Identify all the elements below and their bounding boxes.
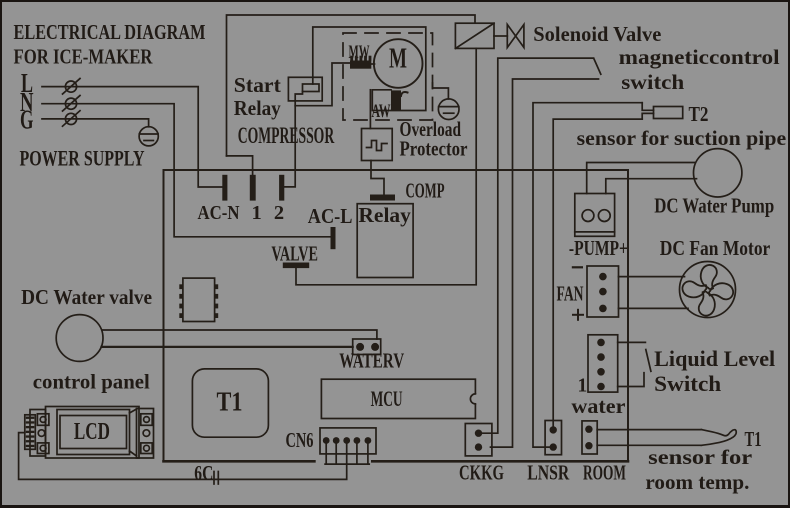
svg-text:Liquid Level: Liquid Level xyxy=(654,346,775,371)
T1 sensor probe xyxy=(701,430,736,446)
aux winding AW coil xyxy=(391,90,408,110)
node G label xyxy=(20,105,34,135)
svg-text:AC-N: AC-N xyxy=(198,202,240,224)
svg-text:DC Water valve: DC Water valve xyxy=(21,285,152,309)
svg-text:Start: Start xyxy=(234,73,282,97)
svg-text:CN6: CN6 xyxy=(286,428,314,452)
wire case to earth xyxy=(433,83,449,99)
LCD module body xyxy=(46,407,140,459)
svg-text:2: 2 xyxy=(274,202,284,224)
board bottom edge xyxy=(164,460,629,463)
LCD mounting pads left xyxy=(37,414,49,454)
MCU notch xyxy=(470,394,480,404)
svg-text:M: M xyxy=(389,44,407,75)
T1 box label xyxy=(217,387,243,417)
FAN connector box xyxy=(587,266,619,317)
wire ROOM to T1 sensor bottom xyxy=(597,444,701,446)
svg-text:sensor for: sensor for xyxy=(648,445,753,469)
VALVE label xyxy=(271,242,318,266)
wire G to earth xyxy=(42,119,149,127)
CN6 pins xyxy=(323,437,371,444)
CKKG connector box xyxy=(465,424,492,456)
LCD screen inner xyxy=(60,416,127,449)
ROOM pins xyxy=(585,426,592,450)
svg-text:Solenoid Valve: Solenoid Valve xyxy=(533,22,661,46)
main control board outline xyxy=(164,170,629,461)
svg-text:WATERV: WATERV xyxy=(339,349,404,373)
svg-text:AW: AW xyxy=(372,101,391,122)
svg-text:ELECTRICAL DIAGRAM: ELECTRICAL DIAGRAM xyxy=(14,20,206,44)
wire pump connector to pump top xyxy=(587,163,695,194)
ROOM label xyxy=(583,461,626,485)
magneticcontrol switch labels xyxy=(619,45,780,94)
DC fan motor circle xyxy=(680,262,736,318)
sensor for room temp labels xyxy=(645,445,752,494)
magnetic switch blade xyxy=(594,59,601,75)
wire fan bottom xyxy=(619,307,689,309)
LNSR label xyxy=(527,461,569,485)
wire MW to motor xyxy=(371,63,374,65)
svg-text:switch: switch xyxy=(621,70,684,94)
main winding MW coil xyxy=(350,56,371,69)
title text xyxy=(14,20,206,69)
terminal AC-N bar xyxy=(222,175,227,201)
node L label xyxy=(21,68,33,98)
wire valve to WATERV bottom xyxy=(102,346,353,348)
svg-text:1: 1 xyxy=(252,202,262,224)
wire switch top contact xyxy=(618,341,646,343)
MCU label xyxy=(371,386,403,411)
COMPRESSOR label xyxy=(238,123,335,148)
wire valve to WATERV top xyxy=(103,330,377,339)
wire magnetic switch bottom to CKKG xyxy=(491,79,599,447)
COMP label xyxy=(406,179,445,203)
svg-text:DC Fan Motor: DC Fan Motor xyxy=(660,236,771,260)
node N label xyxy=(20,87,34,117)
terminal 1 bar xyxy=(250,175,256,201)
water label xyxy=(571,394,625,418)
liquid level switch connector box xyxy=(588,335,618,392)
LCD connector stripes xyxy=(26,417,35,447)
svg-text:T2: T2 xyxy=(689,102,709,126)
svg-text:LCD: LCD xyxy=(74,419,110,445)
wire protector to COMP terminal xyxy=(371,161,384,195)
COMP terminal bar xyxy=(370,195,395,201)
plus sign fan xyxy=(573,310,583,320)
cable CN6 to LCD xyxy=(19,433,347,480)
svg-text:Relay: Relay xyxy=(358,203,411,227)
wire MW to start relay junction xyxy=(295,63,350,106)
PUMP connector box xyxy=(575,194,615,237)
svg-text:control panel: control panel xyxy=(33,370,150,394)
Start Relay labels xyxy=(234,73,282,120)
solenoid coil box xyxy=(455,23,494,48)
IC pins xyxy=(179,284,218,318)
Relay label xyxy=(358,203,411,227)
svg-text:COMPRESSOR: COMPRESSOR xyxy=(238,123,335,148)
svg-text:VALVE: VALVE xyxy=(271,242,318,266)
wire L to AC-N terminal xyxy=(42,87,222,187)
AC-L terminal bar xyxy=(331,227,336,249)
AW label xyxy=(372,101,391,122)
svg-text:water: water xyxy=(571,394,625,418)
wire pump connector to pump bottom xyxy=(606,179,697,194)
POWER SUPPLY label xyxy=(20,146,145,171)
compressor outer box wire to solenoid xyxy=(227,15,476,156)
DC Water Pump label xyxy=(654,194,774,218)
solenoid valve bowtie symbol xyxy=(507,25,524,48)
wire ROOM to T1 sensor top xyxy=(597,429,701,431)
wire start relay top to aux winding xyxy=(313,27,426,111)
T2 sensor leads xyxy=(642,103,653,119)
AC-L label xyxy=(308,204,353,228)
liquid level switch blade xyxy=(646,350,651,372)
wire T2 top to LNSR bottom xyxy=(533,103,642,447)
compressor case dashed box xyxy=(343,33,433,120)
svg-text:sensor for suction pipe: sensor for suction pipe xyxy=(577,126,787,150)
svg-text:Relay: Relay xyxy=(234,96,281,120)
WATERV pins xyxy=(356,343,379,351)
IC U2 box xyxy=(183,278,215,321)
DC water pump motor circle xyxy=(694,149,742,197)
fuse F3 on G xyxy=(63,111,81,127)
6C label xyxy=(194,461,213,485)
svg-text:T1: T1 xyxy=(217,387,243,417)
svg-text:AC-L: AC-L xyxy=(308,204,353,228)
wire N to AC-L terminal xyxy=(42,104,331,237)
Solenoid Valve label xyxy=(533,22,661,46)
LNSR pins xyxy=(550,426,557,451)
MCU box xyxy=(321,379,475,418)
wire T2 bottom to LNSR top xyxy=(553,119,642,430)
svg-text:-PUMP+: -PUMP+ xyxy=(569,236,628,260)
LCD diagonal braces xyxy=(130,409,137,456)
svg-text:G: G xyxy=(20,105,34,135)
fuse F2 on N xyxy=(63,96,81,112)
svg-text:CKKG: CKKG xyxy=(459,461,504,485)
MW label xyxy=(349,42,370,63)
liquid level connector pins xyxy=(597,339,605,391)
svg-text:FOR ICE-MAKER: FOR ICE-MAKER xyxy=(14,45,153,69)
DC water valve circle xyxy=(56,315,103,362)
Overload Protector labels xyxy=(400,117,468,161)
DC Water valve label xyxy=(21,285,152,309)
overload protector box xyxy=(362,129,393,161)
wire compressor box to terminal 1 xyxy=(227,156,253,175)
Liquid Level Switch labels xyxy=(654,346,775,396)
T2 sensor bulb xyxy=(654,107,683,119)
start relay inner element xyxy=(295,77,319,101)
svg-text:6C: 6C xyxy=(194,461,213,485)
VALVE terminal bar xyxy=(283,263,309,269)
svg-text:room temp.: room temp. xyxy=(645,470,749,494)
FAN label xyxy=(557,282,584,306)
svg-text:FAN: FAN xyxy=(557,282,584,306)
fuse F1 on L xyxy=(63,79,81,95)
wire coil to valve symbol xyxy=(494,35,507,37)
fan blades icon xyxy=(681,264,734,317)
wire to overload protector xyxy=(369,90,371,129)
CN6 label xyxy=(286,428,314,452)
CKKG label xyxy=(459,461,504,485)
LCD mounting pads right xyxy=(141,414,152,454)
motor M letter xyxy=(389,44,407,75)
svg-text:MCU: MCU xyxy=(371,386,403,411)
svg-text:Protector: Protector xyxy=(400,137,468,161)
minus sign fan xyxy=(573,266,582,268)
motor M circle xyxy=(374,39,423,88)
wire fan top xyxy=(619,276,685,278)
control panel label xyxy=(33,370,150,394)
LCD screen outer xyxy=(57,410,130,455)
pin 1 label xyxy=(578,376,588,397)
WATERV label xyxy=(339,349,404,373)
T2 label xyxy=(689,102,709,126)
CN6 bus bar xyxy=(325,463,369,465)
svg-text:Switch: Switch xyxy=(654,371,721,396)
CN6 pin leads xyxy=(326,441,368,464)
wire magnetic switch top to CKKG xyxy=(479,58,594,433)
start relay U1 box xyxy=(288,77,322,101)
svg-text:ROOM: ROOM xyxy=(583,461,626,485)
FAN connector pins xyxy=(599,273,607,312)
LCD connector xyxy=(25,415,36,450)
LCD label xyxy=(74,419,110,445)
svg-text:DC Water Pump: DC Water Pump xyxy=(654,194,774,218)
DC Fan Motor label xyxy=(660,236,771,260)
WATERV connector box xyxy=(353,339,381,355)
svg-text:POWER SUPPLY: POWER SUPPLY xyxy=(20,146,145,171)
ground earth symbol (compressor) xyxy=(438,99,459,120)
LNSR connector box xyxy=(545,421,561,455)
sensor for suction pipe label xyxy=(577,126,787,150)
ROOM connector box xyxy=(582,421,597,454)
LCD right flange xyxy=(137,409,154,459)
svg-text:COMP: COMP xyxy=(406,179,445,203)
AC-N 1 2 labels xyxy=(198,202,285,224)
6C cable tick marks xyxy=(214,472,218,485)
T1 label xyxy=(745,427,762,451)
ground earth symbol (power supply) xyxy=(139,127,158,146)
svg-text:magneticcontrol: magneticcontrol xyxy=(619,45,780,69)
terminal 2 bar xyxy=(279,175,284,201)
CKKG pins xyxy=(475,430,482,451)
LCD left flange xyxy=(30,410,46,457)
wire switch bottom contact xyxy=(618,373,644,387)
wire VALVE to solenoid coil xyxy=(296,48,476,284)
CN6 connector box xyxy=(320,428,376,454)
wire start relay to terminal 2 xyxy=(284,101,295,187)
transformer T1 box xyxy=(192,369,268,437)
svg-text:LNSR: LNSR xyxy=(527,461,569,485)
-PUMP+ label xyxy=(569,236,628,260)
relay K1 box xyxy=(357,204,413,278)
protector element squiggle xyxy=(367,141,388,151)
